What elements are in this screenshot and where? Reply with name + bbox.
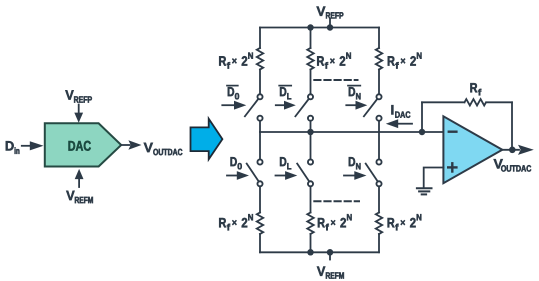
DAC block: [45, 123, 121, 166]
node top rail VREFP: [327, 24, 334, 31]
switch D0 lower-left: [247, 159, 263, 186]
wire summing rail: [260, 131, 443, 133]
resistor Rf x 2^N upper-middle: [307, 48, 313, 70]
arrow IDAC: [386, 119, 412, 128]
resistor Rf x 2^N upper-right: [376, 48, 382, 70]
arrow VREFM into DAC: [75, 169, 84, 187]
label VREFP (ladder top): [317, 7, 344, 19]
arrow at D0bar: [222, 101, 246, 110]
wire left column switch to rail: [259, 121, 261, 132]
label Rf feedback: [470, 83, 481, 95]
label DNbar: [349, 87, 361, 99]
wire middle column lower: [310, 132, 312, 159]
wire middle column upper: [310, 28, 312, 49]
label DLbar: [280, 87, 291, 99]
wire right column upper: [378, 28, 380, 49]
switch DLbar upper-middle: [295, 94, 313, 120]
label DL: [280, 157, 291, 169]
node summing rail middle column: [307, 129, 314, 136]
arrow at DN: [344, 171, 367, 180]
wire VREFM stub: [329, 252, 331, 259]
op-amp plus: [448, 163, 456, 171]
node inverting input: [419, 129, 426, 136]
wire op-amp output: [502, 149, 519, 151]
wire middle column switch to resistor: [310, 187, 312, 213]
arrow VREFP into DAC: [74, 105, 83, 123]
label IDAC: [391, 105, 410, 118]
node bottom rail VREFM: [327, 249, 334, 256]
wire right column to bottom rail: [378, 234, 380, 252]
wire non-inverting input: [424, 168, 444, 188]
wire left column lower: [259, 132, 261, 159]
wire bottom rail: [260, 251, 379, 253]
label Rf x 2^N lower-right: [388, 214, 422, 230]
label Rf x 2^N lower-left: [219, 214, 253, 230]
arrow at DNbar: [346, 101, 367, 110]
resistor Rf x 2^N upper-left: [257, 48, 263, 70]
node top rail middle column: [307, 24, 314, 31]
label DN: [349, 157, 361, 169]
label Rf x 2^N lower-middle: [318, 214, 352, 230]
switch DNbar upper-right: [364, 94, 382, 120]
op-amp minus: [449, 130, 457, 132]
dashed line upper: [314, 79, 357, 81]
wire feedback up: [421, 102, 423, 132]
label Rf x 2^N upper-left: [219, 53, 253, 69]
wire top rail: [260, 27, 379, 29]
wire feedback down: [511, 102, 513, 150]
wire left column switch to resistor: [259, 187, 261, 213]
switch DN lower-right: [366, 159, 382, 186]
dashed line lower: [314, 200, 359, 202]
label VREFP (DAC block top): [65, 90, 92, 102]
op-amp U1: [443, 116, 502, 183]
wire left column to bottom rail: [259, 234, 261, 252]
label DAC: [69, 141, 91, 151]
arrow output: [518, 145, 534, 155]
label VOUTDAC (left): [144, 143, 183, 155]
switch D0bar upper-left: [245, 94, 263, 120]
resistor Rf x 2^N lower-middle: [307, 213, 313, 235]
label D0: [231, 157, 242, 169]
label Rf x 2^N upper-middle: [317, 53, 351, 69]
node output: [509, 147, 516, 154]
arrow at DLbar: [276, 101, 296, 110]
wire middle column to switch: [310, 70, 312, 94]
arrow Din into DAC: [22, 141, 44, 150]
label VREFM (ladder bottom): [317, 267, 344, 279]
ground: [417, 188, 432, 194]
label D0bar: [228, 87, 239, 99]
wire VREFP stub: [329, 19, 331, 28]
wire right column switch to resistor: [378, 187, 380, 213]
wire left column upper: [259, 28, 261, 49]
label Din: [6, 141, 20, 154]
wire feedback top right: [487, 101, 513, 103]
wire right column lower: [378, 132, 380, 159]
wire left column to switch: [259, 70, 261, 94]
node bottom rail middle column: [307, 249, 314, 256]
wire feedback top left: [422, 101, 465, 103]
label VOUTDAC (right): [494, 159, 532, 171]
wire middle column switch to rail: [310, 121, 312, 132]
big transition arrow: [191, 119, 223, 160]
resistor Rf x 2^N lower-left: [257, 213, 263, 235]
resistor Rf x 2^N lower-right: [376, 213, 382, 235]
arrow at DL: [276, 171, 298, 180]
label VREFM (DAC block bottom): [66, 191, 93, 203]
switch DL lower-middle: [297, 159, 313, 186]
wire DAC output: [121, 140, 141, 149]
label Rf x 2^N upper-right: [388, 53, 422, 69]
arrow at D0: [227, 171, 249, 180]
wire right column to switch: [378, 70, 380, 94]
wire middle column to bottom rail: [310, 234, 312, 252]
resistor Rf feedback: [465, 99, 486, 105]
wire right column switch to rail: [378, 121, 380, 132]
